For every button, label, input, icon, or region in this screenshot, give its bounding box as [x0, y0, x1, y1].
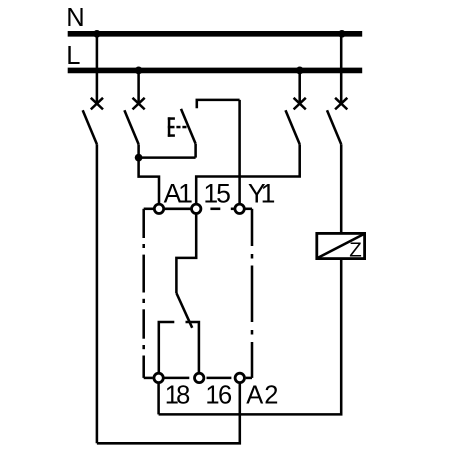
node junction dot on N bus at coil branch: [338, 30, 346, 38]
switch S3 blade: [286, 110, 300, 144]
wire internal link A1 to 15: [164, 208, 192, 211]
svg-text:16: 16: [205, 381, 232, 409]
switch S2 blade: [124, 110, 138, 144]
wire 15 down to internal contact: [176, 213, 196, 293]
switch S1 blade: [83, 110, 97, 144]
enclosure dash-dot box top edge: [144, 208, 252, 211]
terminal A2: [235, 373, 244, 382]
wire junction to E pushbutton bottom: [139, 156, 196, 159]
pushbutton E label: [168, 117, 187, 137]
svg-text:18: 18: [165, 381, 190, 409]
svg-text:L: L: [66, 42, 80, 70]
wire coil Z bottom to contact 18 rail: [159, 259, 342, 415]
wire E blade to bottom node: [194, 144, 197, 158]
wire S3 to terminal 15: [196, 144, 300, 204]
terminal mark X4: [335, 98, 347, 110]
svg-text:N: N: [66, 4, 84, 32]
wire N bus drop to switch S4: [340, 34, 343, 104]
terminal A1: [154, 204, 163, 213]
wire N bus: [68, 31, 363, 37]
wire L bus drop to switch S3: [298, 70, 301, 103]
terminal mark X3: [294, 98, 306, 110]
wire A2 drop to N return rail: [97, 384, 240, 444]
terminal 15: [192, 204, 201, 213]
svg-text:A1: A1: [164, 179, 193, 209]
terminal Y1: [235, 204, 244, 213]
terminal 18: [154, 373, 163, 382]
wire junction down to A1: [139, 158, 159, 204]
enclosure dash-dot box right edge: [251, 209, 254, 378]
svg-text:A2: A2: [246, 381, 279, 409]
node junction dot on L bus at S2 tap: [135, 67, 143, 75]
internal changeover blade: [176, 293, 192, 328]
wire contact 18 drop: [157, 384, 160, 415]
switch S4 blade: [327, 110, 341, 144]
pushbutton E blade: [181, 109, 196, 144]
wire L bus drop to switch S2: [137, 70, 140, 103]
terminal mark X1: [91, 98, 103, 110]
terminal 16: [195, 373, 204, 382]
internal fixed contact bar 18: [159, 322, 175, 372]
wire S1 down to bottom rail: [96, 144, 99, 443]
node junction dot on N bus at S1 tap: [93, 30, 101, 38]
svg-text:15: 15: [203, 179, 230, 209]
wire E top contact to Y1 riser: [197, 100, 240, 108]
node junction dot S2/E/A1: [135, 154, 143, 162]
relay coil Z diagonal: [318, 234, 365, 258]
enclosure dash-dot box bottom edge: [144, 377, 252, 380]
terminal mark X2: [133, 98, 145, 110]
wire S2 to junction: [137, 144, 140, 157]
wire Y1 riser: [238, 100, 241, 204]
node junction dot on L bus at S3 tap: [296, 67, 304, 75]
svg-text:Z: Z: [349, 239, 362, 262]
wire L bus: [68, 68, 363, 74]
enclosure dash-dot box left edge: [142, 209, 145, 378]
svg-text:Y1: Y1: [248, 179, 275, 209]
relay coil Z box: [317, 233, 365, 258]
wire N bus drop to switch S1: [96, 34, 99, 104]
wire S4 to coil Z: [340, 144, 343, 233]
internal fixed contact bar 16: [186, 322, 199, 372]
